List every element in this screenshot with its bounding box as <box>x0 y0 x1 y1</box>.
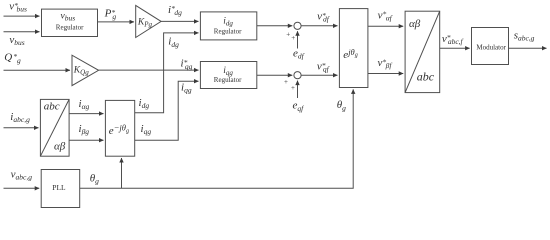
box e^-jtheta_g <box>105 100 134 156</box>
svg-text:iqg: iqg <box>223 66 233 77</box>
svg-text:+: + <box>291 34 295 42</box>
wire v_bus input <box>4 31 40 33</box>
svg-text:i*dg: i*dg <box>168 4 182 17</box>
wire e_df <box>297 31 299 48</box>
wire s_abc,g output <box>509 47 547 49</box>
svg-text:αβ: αβ <box>54 141 66 153</box>
svg-text:Q*g: Q*g <box>4 52 21 65</box>
svg-text:Regulator: Regulator <box>214 27 242 35</box>
gain K_Pg <box>136 5 161 37</box>
svg-text:idg: idg <box>168 36 179 49</box>
svg-text:i*qg: i*qg <box>181 58 193 71</box>
wire i_qg regulator output <box>257 74 293 76</box>
box v_bus Regulator <box>42 9 98 36</box>
svg-text:Modulator: Modulator <box>476 44 506 52</box>
wire v*_beta_f <box>368 73 403 75</box>
svg-text:abc: abc <box>44 101 60 113</box>
svg-text:v*df: v*df <box>317 10 330 23</box>
summing junction S2 <box>294 72 301 79</box>
box abc to alphabeta <box>40 99 69 156</box>
wire v*_abc,f <box>440 47 470 49</box>
svg-text:ejθg: ejθg <box>343 47 357 61</box>
svg-text:v*αf: v*αf <box>378 9 393 22</box>
svg-text:idg: idg <box>139 97 150 110</box>
svg-text:iqg: iqg <box>141 123 152 136</box>
svg-text:θg: θg <box>90 173 99 186</box>
svg-text:e−jθg: e−jθg <box>109 122 129 136</box>
svg-text:v*abc,f: v*abc,f <box>442 33 464 46</box>
svg-text:KQg: KQg <box>73 65 89 76</box>
wire v*_alpha_f <box>368 25 403 27</box>
svg-text:+: + <box>291 84 295 92</box>
svg-text:v*qf: v*qf <box>317 60 330 73</box>
svg-text:iβg: iβg <box>79 123 90 136</box>
wire v*_qf <box>301 74 337 76</box>
wire e_qf <box>297 81 299 98</box>
svg-text:abc: abc <box>417 69 435 83</box>
svg-text:v*bus: v*bus <box>9 0 27 13</box>
wire Q*_g input <box>4 69 71 71</box>
svg-text:+: + <box>286 30 290 38</box>
svg-text:idg: idg <box>223 16 233 27</box>
wire v*_bus input <box>4 15 40 17</box>
wire i_dg feedback <box>135 33 199 113</box>
box i_qg Regulator <box>200 62 256 89</box>
box PLL <box>41 170 79 208</box>
wire theta_g branch into e^-jtheta_g <box>121 158 123 188</box>
svg-text:v*βf: v*βf <box>378 57 393 70</box>
box i_dg Regulator <box>200 12 256 40</box>
wire i_beta_g <box>69 139 103 141</box>
wire i*_dg <box>161 20 198 22</box>
wire i*_qg <box>99 69 199 71</box>
svg-text:αβ: αβ <box>409 18 421 30</box>
wire i_abc,g input <box>4 127 39 129</box>
svg-text:eqf: eqf <box>293 100 305 113</box>
summing junction S1 <box>294 22 301 29</box>
box Modulator <box>472 28 509 65</box>
svg-text:iαg: iαg <box>79 98 90 111</box>
svg-text:vbus: vbus <box>9 34 24 47</box>
svg-text:PLL: PLL <box>52 183 66 192</box>
svg-text:Regulator: Regulator <box>214 76 242 84</box>
wire v_abc,g input <box>4 187 40 189</box>
svg-text:sabc,g: sabc,g <box>514 29 535 42</box>
svg-text:edf: edf <box>293 48 305 61</box>
wire v*_df <box>301 25 337 27</box>
wire P*_g <box>98 21 135 23</box>
box alphabeta to abc <box>405 11 440 92</box>
svg-text:+: + <box>284 78 288 86</box>
svg-text:KPg: KPg <box>137 17 153 28</box>
wire i_dg regulator output <box>257 25 293 27</box>
svg-text:vbus: vbus <box>61 12 76 23</box>
gain K_Qg <box>72 55 99 85</box>
wire theta_g main <box>80 89 354 188</box>
svg-text:θg: θg <box>337 99 346 112</box>
svg-text:P*g: P*g <box>104 8 117 21</box>
svg-text:Regulator: Regulator <box>56 24 84 32</box>
svg-text:iqg: iqg <box>181 82 192 95</box>
svg-text:vabc,g: vabc,g <box>11 168 33 181</box>
wire i_qg feedback <box>135 81 199 140</box>
wire i_alpha_g <box>69 113 103 115</box>
box e^jtheta_g <box>339 9 368 88</box>
svg-text:iabc,g: iabc,g <box>10 111 30 124</box>
